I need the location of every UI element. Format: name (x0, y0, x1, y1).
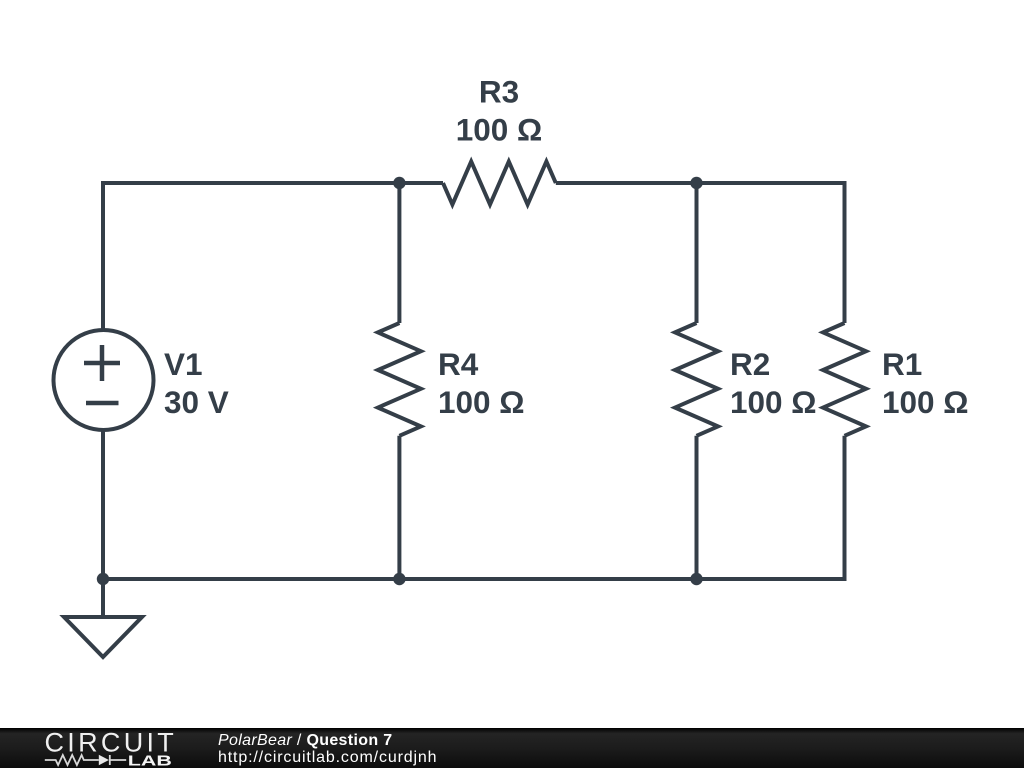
CircuitLab logo schematic line (resistor + diode) (45, 755, 126, 765)
junction bottom V1 (97, 573, 109, 585)
junction bottom R4 (393, 573, 405, 585)
wire top-right: node B to R1 corner (697, 181, 845, 185)
junction bottom R2 (690, 573, 702, 585)
R2 value label (730, 346, 817, 420)
V1 value label (164, 346, 229, 420)
R4 value label (438, 346, 525, 420)
CircuitLab logo diode triangle (99, 755, 109, 765)
svg-text:100 Ω: 100 Ω (882, 384, 969, 420)
resistor R2 (675, 183, 718, 579)
svg-text:30 V: 30 V (164, 384, 229, 420)
svg-text:R2: R2 (730, 346, 770, 382)
svg-text:V1: V1 (164, 346, 203, 382)
svg-text:100 Ω: 100 Ω (730, 384, 817, 420)
ground (64, 579, 142, 657)
wire top: V1+ to node A (103, 181, 399, 185)
wire: V1 top lead (101, 181, 105, 331)
node B junction (top R2) (690, 177, 702, 189)
svg-text:R4: R4 (438, 346, 479, 382)
R1 value label (882, 346, 969, 420)
svg-text:PolarBear / Question 7: PolarBear / Question 7 (218, 732, 392, 749)
svg-text:100 Ω: 100 Ω (438, 384, 525, 420)
node A junction (top R4) (393, 177, 405, 189)
svg-text:http://circuitlab.com/curdjnh: http://circuitlab.com/curdjnh (218, 749, 437, 766)
resistor R4 (378, 183, 421, 579)
voltage source V1 (54, 330, 154, 430)
resistor R3 (399, 162, 696, 205)
svg-text:R1: R1 (882, 346, 922, 382)
resistor R1 (823, 181, 866, 581)
R3 value label (456, 74, 543, 148)
svg-text:LAB: LAB (128, 752, 172, 768)
wire: V1 bottom lead (101, 430, 105, 580)
svg-text:R3: R3 (479, 74, 519, 110)
wire bottom net (103, 577, 845, 581)
svg-text:100 Ω: 100 Ω (456, 112, 543, 148)
